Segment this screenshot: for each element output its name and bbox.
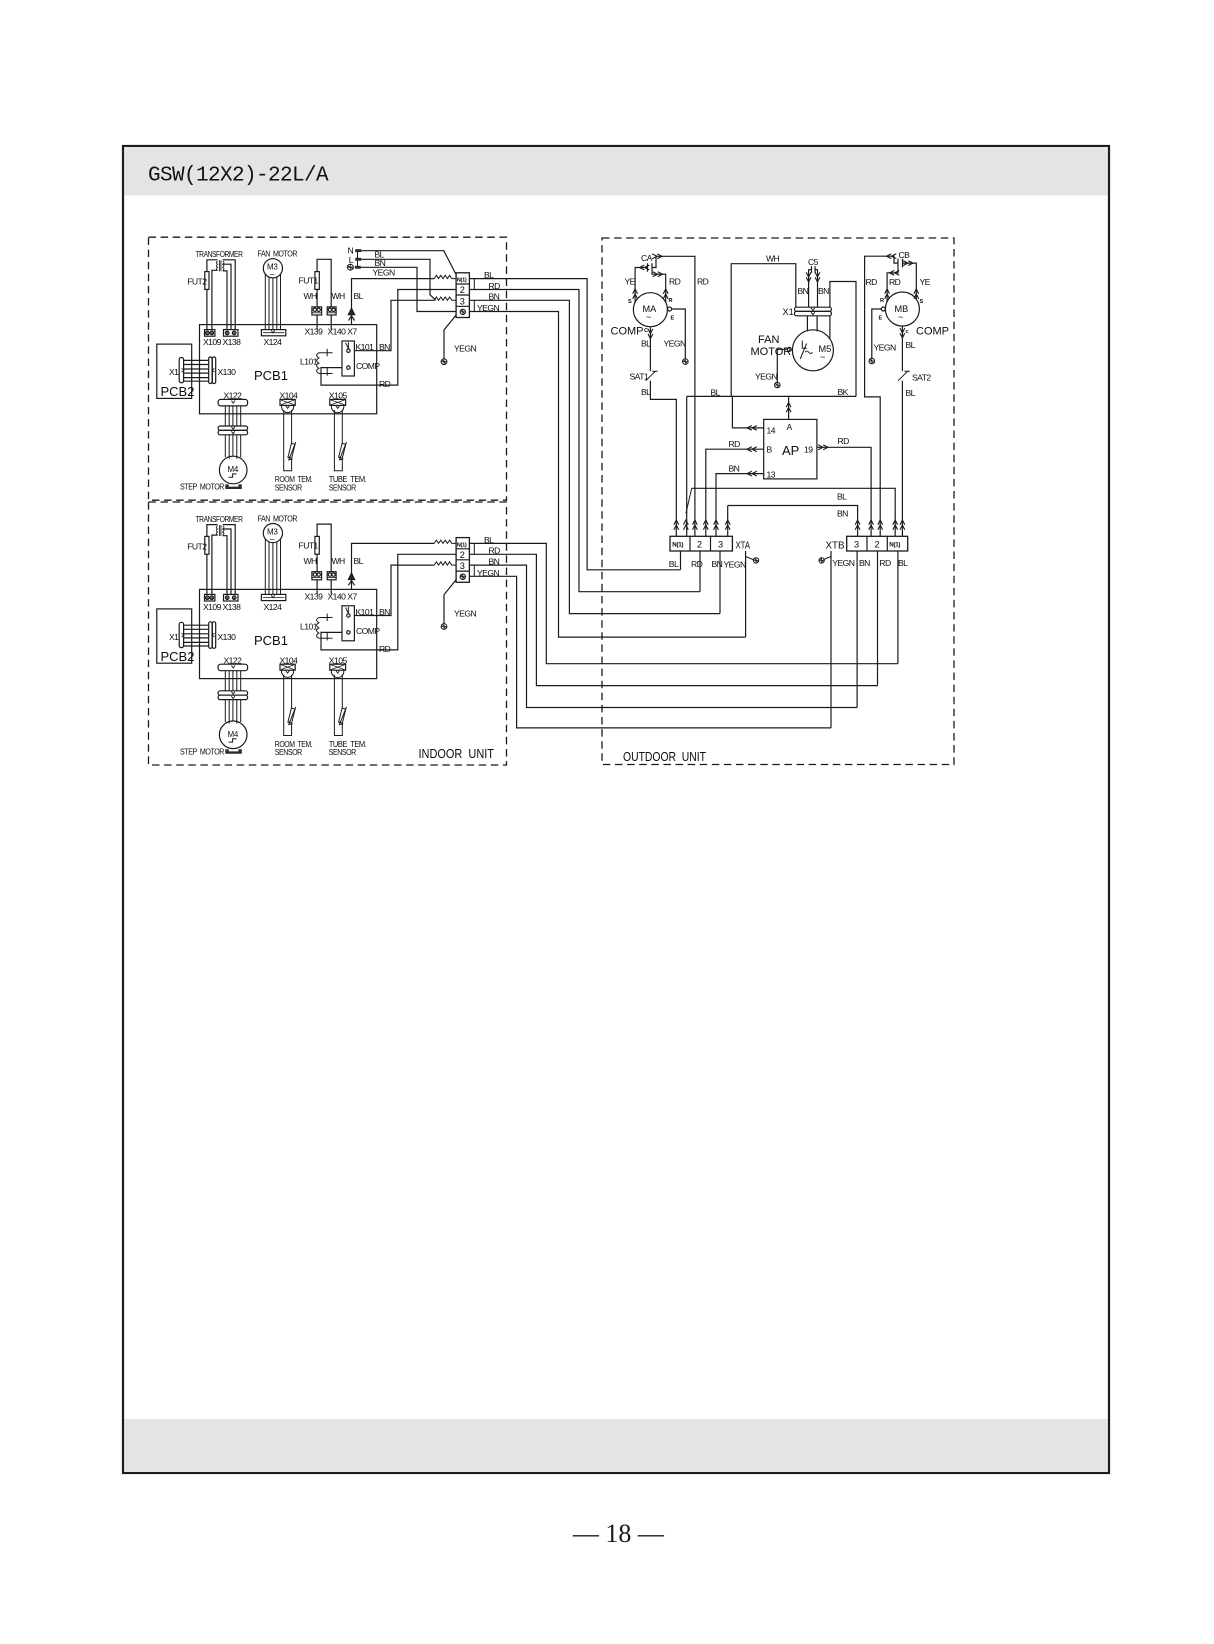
svg-text:X124: X124 — [264, 337, 283, 347]
svg-text:RD: RD — [691, 559, 703, 569]
svg-text:XTA: XTA — [736, 540, 751, 552]
svg-text:~: ~ — [820, 352, 825, 362]
svg-text:TRANSFORMER: TRANSFORMER — [196, 249, 243, 259]
svg-text:14: 14 — [767, 426, 776, 436]
svg-text:c: c — [906, 329, 909, 335]
svg-text:RD: RD — [669, 277, 681, 287]
svg-text:YEGN: YEGN — [874, 343, 896, 353]
svg-text:13: 13 — [767, 470, 776, 480]
svg-text:RD: RD — [697, 277, 709, 287]
svg-text:E: E — [671, 316, 675, 322]
svg-text:N(1): N(1) — [889, 542, 900, 549]
svg-text:OUTDOOR UNIT: OUTDOOR UNIT — [623, 749, 706, 764]
svg-text:— 18 —: — 18 — — [572, 1519, 665, 1548]
svg-text:X7: X7 — [347, 327, 357, 337]
svg-text:BL: BL — [669, 559, 679, 569]
svg-text:B: B — [767, 445, 773, 455]
svg-text:BL: BL — [711, 388, 721, 398]
svg-text:YEGN: YEGN — [832, 558, 854, 568]
svg-text:YEGN: YEGN — [724, 560, 746, 570]
svg-text:K101: K101 — [356, 342, 375, 352]
svg-text:R: R — [669, 298, 673, 304]
svg-text:BN: BN — [859, 558, 870, 568]
svg-text:X109: X109 — [203, 337, 222, 347]
svg-text:C5: C5 — [808, 257, 819, 267]
svg-text:YEGN: YEGN — [664, 339, 686, 349]
svg-text:A: A — [787, 422, 793, 432]
svg-text:SENSOR: SENSOR — [329, 482, 356, 492]
svg-text:COMP: COMP — [356, 361, 380, 371]
svg-text:FUT2: FUT2 — [187, 277, 207, 287]
svg-text:S: S — [628, 299, 632, 305]
svg-text:CB: CB — [899, 250, 911, 260]
svg-text:19: 19 — [804, 445, 813, 455]
svg-text:X130: X130 — [218, 367, 237, 377]
svg-text:~: ~ — [270, 270, 275, 280]
svg-text:3: 3 — [460, 296, 465, 306]
svg-text:N(1): N(1) — [457, 278, 467, 284]
svg-text:X139: X139 — [305, 327, 324, 337]
svg-text:BN: BN — [798, 286, 809, 296]
svg-text:RD: RD — [729, 439, 741, 449]
svg-text:BN: BN — [818, 286, 829, 296]
svg-text:XTB: XTB — [826, 540, 845, 552]
svg-text:RD: RD — [879, 558, 891, 568]
svg-text:X1: X1 — [169, 367, 179, 377]
svg-text:YEGN: YEGN — [373, 267, 395, 277]
svg-text:YEGN: YEGN — [454, 344, 476, 354]
svg-text:BL: BL — [641, 387, 651, 397]
svg-text:YE: YE — [920, 277, 931, 287]
svg-text:COMP: COMP — [611, 326, 644, 338]
svg-text:BL: BL — [837, 492, 847, 502]
svg-text:YE: YE — [625, 277, 636, 287]
svg-text:AP: AP — [782, 443, 799, 458]
svg-text:BL: BL — [906, 388, 916, 398]
svg-text:SAT1: SAT1 — [630, 372, 649, 382]
svg-text:BL: BL — [354, 291, 364, 301]
svg-text:~: ~ — [646, 312, 651, 322]
svg-text:L101: L101 — [300, 357, 318, 367]
svg-text:X104: X104 — [280, 391, 299, 401]
svg-text:2: 2 — [697, 540, 702, 550]
svg-text:3: 3 — [854, 540, 859, 550]
svg-text:FAN MOTOR: FAN MOTOR — [258, 249, 298, 259]
svg-text:X140: X140 — [328, 327, 347, 337]
svg-text:STEP MOTOR: STEP MOTOR — [180, 482, 224, 492]
svg-text:WH: WH — [332, 291, 346, 301]
svg-text:~: ~ — [898, 312, 903, 322]
svg-text:BL: BL — [906, 340, 916, 350]
svg-text:BK: BK — [838, 387, 849, 397]
svg-text:BL: BL — [898, 558, 908, 568]
svg-text:FAN: FAN — [758, 334, 779, 346]
svg-text:M4: M4 — [228, 465, 239, 474]
svg-text:X105: X105 — [329, 391, 348, 401]
svg-text:X122: X122 — [224, 391, 243, 401]
svg-text:SAT2: SAT2 — [912, 373, 931, 383]
svg-text:S: S — [920, 299, 924, 305]
svg-text:E: E — [879, 316, 883, 322]
svg-text:PCB2: PCB2 — [161, 384, 195, 399]
svg-text:GSW(12X2)-22L/A: GSW(12X2)-22L/A — [148, 165, 329, 188]
svg-text:BN: BN — [729, 464, 740, 474]
svg-text:BN: BN — [837, 509, 848, 519]
svg-text:2: 2 — [460, 285, 465, 295]
svg-text:BN: BN — [712, 559, 723, 569]
svg-text:INDOOR UNIT: INDOOR UNIT — [419, 746, 495, 761]
svg-text:C: C — [644, 328, 648, 334]
svg-text:N(1): N(1) — [672, 542, 683, 549]
svg-text:X1: X1 — [783, 307, 794, 317]
svg-text:RD: RD — [379, 379, 391, 389]
svg-text:X138: X138 — [223, 337, 242, 347]
svg-text:SENSOR: SENSOR — [275, 482, 302, 492]
svg-text:BL: BL — [641, 339, 651, 349]
svg-text:YEGN: YEGN — [755, 372, 777, 382]
svg-text:WH: WH — [304, 291, 318, 301]
svg-text:N: N — [348, 245, 354, 255]
svg-text:WH: WH — [766, 254, 780, 264]
svg-text:RD: RD — [889, 277, 901, 287]
svg-text:COMP: COMP — [916, 326, 949, 338]
svg-text:2: 2 — [875, 540, 880, 550]
svg-text:FUT1: FUT1 — [299, 276, 319, 286]
svg-text:3: 3 — [718, 540, 723, 550]
svg-text:PCB1: PCB1 — [254, 368, 288, 383]
svg-text:RD: RD — [838, 436, 850, 446]
svg-text:RD: RD — [866, 277, 878, 287]
svg-text:BN: BN — [379, 342, 390, 352]
svg-text:MOTOR: MOTOR — [751, 346, 792, 358]
svg-text:R: R — [880, 298, 884, 304]
svg-text:CA: CA — [641, 253, 653, 263]
